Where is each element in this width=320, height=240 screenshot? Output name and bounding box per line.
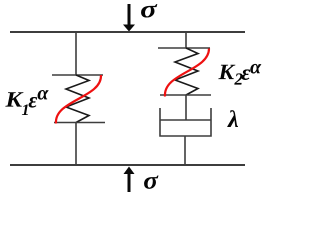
spring K2 (fractional spring element) — [175, 48, 198, 95]
spring K2 bottom tick — [160, 94, 211, 96]
dashpot cylinder — [160, 108, 211, 136]
wire: spring K1 to bottom bar — [75, 123, 77, 166]
red S-curve over spring K1 — [56, 75, 101, 124]
label K1 — [5, 92, 28, 115]
spring K1 bottom tick — [54, 122, 105, 124]
spring K1 top tick — [52, 74, 103, 76]
spring K1 (fractional spring element) — [66, 75, 89, 123]
red S-curve over spring K2 — [165, 49, 209, 97]
label epsilon^alpha (right) — [242, 64, 262, 80]
bottom bar (loading plate) — [10, 164, 245, 166]
label sigma (bottom) — [144, 175, 158, 188]
wire: top bar to spring K2 — [185, 32, 187, 48]
wire: spring K2 to dashpot piston — [185, 95, 187, 120]
label K2 — [218, 65, 242, 85]
dashpot piston plate — [160, 119, 211, 121]
bottom stress arrow — [124, 167, 135, 193]
label lambda — [227, 110, 238, 127]
top bar (loading plate) — [10, 31, 245, 33]
label epsilon^alpha (left) — [29, 90, 49, 108]
spring K2 top tick — [158, 47, 210, 49]
wire: top bar to spring K1 — [75, 32, 77, 75]
wire: dashpot to bottom bar — [184, 136, 186, 165]
label sigma (top) — [141, 4, 157, 17]
top stress arrow — [123, 4, 135, 32]
